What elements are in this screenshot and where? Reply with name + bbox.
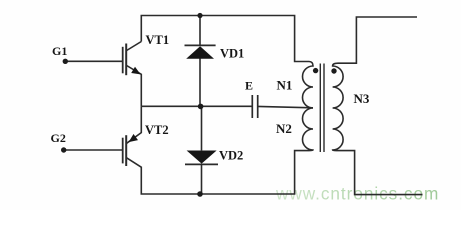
svg-text:VT2: VT2 [145, 123, 169, 137]
svg-text:N1: N1 [277, 77, 293, 92]
svg-text:VD2: VD2 [219, 149, 243, 163]
svg-text:VT1: VT1 [146, 33, 170, 47]
svg-text:G2: G2 [51, 131, 66, 145]
svg-text:N2: N2 [276, 121, 292, 136]
svg-text:www.cntronics.com: www.cntronics.com [275, 184, 439, 204]
svg-text:N3: N3 [354, 91, 370, 106]
svg-text:G1: G1 [52, 44, 67, 58]
svg-text:E: E [245, 79, 253, 93]
svg-text:VD1: VD1 [220, 47, 244, 61]
